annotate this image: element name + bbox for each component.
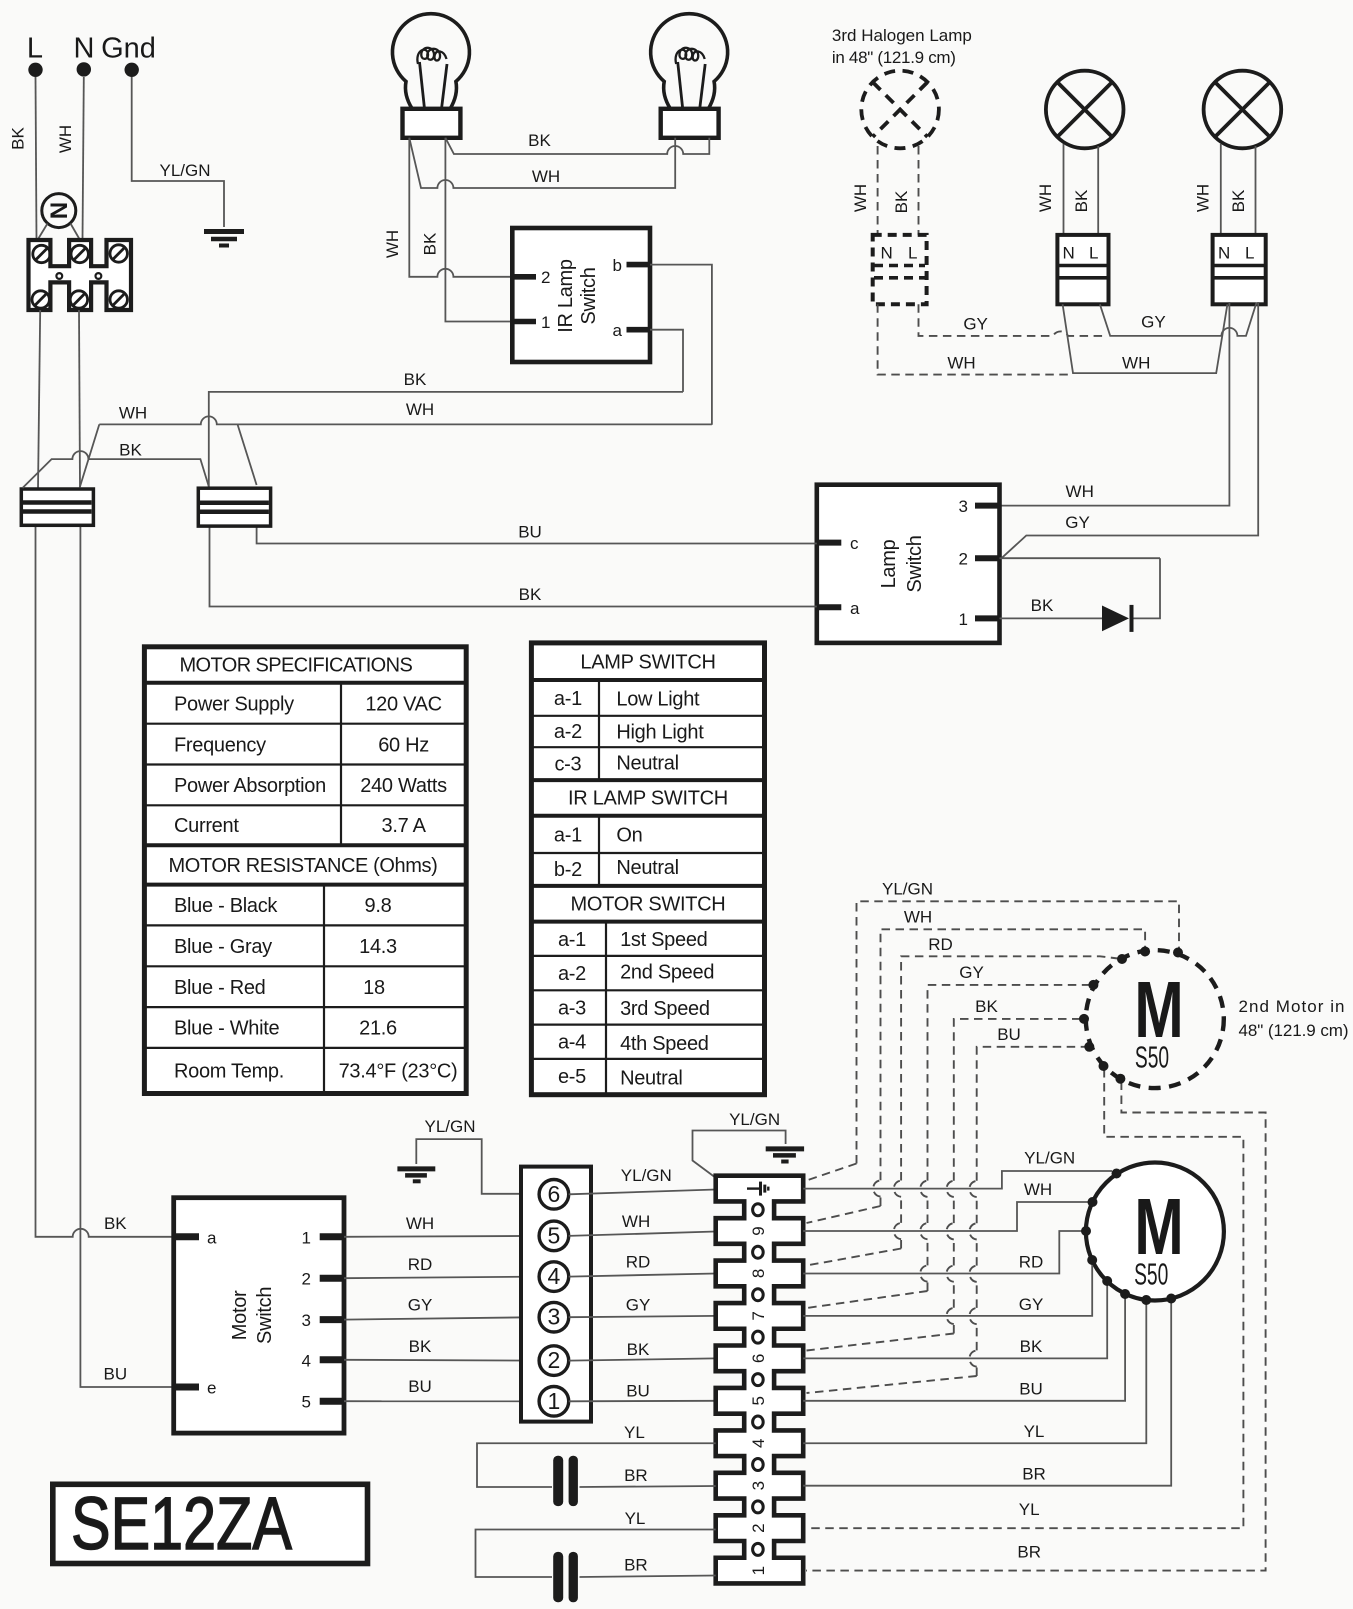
svg-text:Switch: Switch [578, 267, 600, 324]
svg-text:5: 5 [548, 1222, 561, 1248]
svg-text:BK: BK [975, 997, 998, 1016]
wire BK connector pin2 to strip 6 [569, 1358, 716, 1360]
wire BK dashed from HL3 [918, 146, 920, 235]
svg-text:3.7 A: 3.7 A [382, 815, 427, 837]
wire BK lower-left run from splice S1 to splice S2 [23, 451, 209, 488]
wire WH from HL1 [1063, 144, 1065, 235]
svg-text:YL/GN: YL/GN [729, 1110, 780, 1129]
svg-text:Power Absorption: Power Absorption [174, 775, 326, 797]
svg-text:YL/GN: YL/GN [1024, 1149, 1075, 1168]
svg-text:c-3: c-3 [554, 754, 581, 776]
svg-text:120 VAC: 120 VAC [365, 694, 441, 716]
svg-text:GY: GY [963, 315, 988, 334]
svg-text:Room Temp.: Room Temp. [174, 1061, 284, 1083]
svg-text:BU: BU [626, 1382, 650, 1401]
wire RD strip 8 to motor M1 [803, 1231, 1083, 1274]
wire WH from HL2 [1220, 144, 1222, 235]
svg-text:YL/GN: YL/GN [882, 880, 933, 899]
svg-text:6: 6 [548, 1181, 561, 1207]
pin 3 of motor switch [302, 1311, 344, 1330]
svg-text:YL: YL [624, 1423, 645, 1442]
pin a of lamp switch [817, 599, 860, 618]
svg-text:YL/GN: YL/GN [159, 161, 210, 180]
svg-text:Frequency: Frequency [174, 734, 266, 756]
wire GY strip 7 to motor M1 [803, 1262, 1092, 1316]
svg-text:Blue - Gray: Blue - Gray [174, 936, 272, 958]
svg-text:BK: BK [1031, 596, 1054, 615]
lamp bulb LP2 [651, 14, 728, 138]
svg-text:5: 5 [749, 1396, 768, 1405]
wire from pin b down to WH line [650, 265, 712, 425]
node N (neutral terminal) [74, 33, 95, 77]
pin a of motor switch [174, 1228, 217, 1247]
wire BK from L to terminal block [36, 77, 37, 240]
hook BU into strip row 5 [807, 1376, 977, 1393]
svg-text:2nd Motor in: 2nd Motor in [1239, 997, 1345, 1016]
svg-text:14.3: 14.3 [359, 936, 397, 958]
wire WH from NL2 down to lamp switch pin 3 [1000, 302, 1230, 506]
svg-text:3: 3 [749, 1481, 768, 1490]
svg-text:4: 4 [749, 1439, 768, 1448]
hop WH over YL/GN wire [873, 1180, 880, 1196]
svg-text:1: 1 [749, 1566, 768, 1575]
svg-text:a: a [207, 1228, 217, 1247]
node dot RD on M2 [1117, 954, 1127, 964]
wire RD connector pin4 to strip 8 [569, 1274, 716, 1277]
wire BK pin4 to connector pin 2 [344, 1359, 539, 1362]
svg-text:BU: BU [103, 1365, 127, 1384]
svg-text:BR: BR [1017, 1543, 1041, 1562]
diode D1 [1102, 605, 1132, 632]
svg-text:Power Supply: Power Supply [174, 694, 294, 716]
svg-text:WH: WH [1024, 1180, 1052, 1199]
svg-text:Blue - Red: Blue - Red [174, 977, 266, 999]
svg-text:4th Speed: 4th Speed [620, 1033, 709, 1055]
ground symbol (top) [204, 232, 244, 246]
hook YL/GN into strip gnd row [807, 1164, 857, 1181]
Motor Switch box [174, 1198, 344, 1433]
svg-text:Neutral: Neutral [620, 1068, 682, 1090]
node dot WH on M2 [1140, 947, 1150, 957]
wire GY connector pin3 to strip 7 [569, 1316, 716, 1317]
svg-text:GY: GY [1141, 313, 1166, 332]
pin 1 of IR lamp switch [512, 313, 550, 332]
svg-text:2: 2 [959, 550, 968, 569]
halogen lamp HL3 (remote, dashed) [861, 71, 939, 149]
node dot BR on M2 [1115, 1074, 1125, 1084]
svg-text:2: 2 [541, 268, 550, 287]
wire BU connector pin1 to strip 5 [569, 1400, 716, 1403]
svg-text:4: 4 [302, 1351, 311, 1370]
wire BK dashed to motor M2 [954, 1019, 1081, 1334]
pin e of motor switch [174, 1379, 217, 1398]
pin 2 of motor switch [302, 1270, 344, 1289]
svg-text:a: a [850, 599, 860, 618]
svg-text:Neutral: Neutral [616, 857, 678, 879]
wire BK from HL2 [1255, 146, 1257, 235]
wire WH dashed from NL3 to NL1 [878, 304, 1070, 374]
svg-text:MOTOR SPECIFICATIONS: MOTOR SPECIFICATIONS [180, 655, 413, 677]
svg-text:BR: BR [624, 1556, 648, 1575]
svg-text:On: On [616, 825, 642, 847]
svg-text:9.8: 9.8 [365, 895, 392, 917]
wire WH from N to terminal block [83, 77, 84, 240]
splice connector S2 [198, 488, 270, 526]
ground symbol (motor area) [397, 1169, 435, 1181]
wire BU pin5 to connector pin 1 [344, 1400, 539, 1402]
svg-text:BK: BK [104, 1214, 127, 1233]
svg-text:GY: GY [1065, 513, 1090, 532]
svg-text:73.4°F (23°C): 73.4°F (23°C) [339, 1061, 458, 1083]
wire BR capacitor C2 to strip row 1 [580, 1576, 716, 1578]
wire GY pin3 to connector pin 3 [344, 1317, 539, 1319]
svg-text:18: 18 [363, 977, 385, 999]
wire BK from HL1 [1097, 146, 1099, 235]
model label box SE12ZA [53, 1482, 368, 1565]
svg-text:1: 1 [541, 313, 550, 332]
halogen lamp HL1 [1046, 71, 1124, 149]
svg-text:WH: WH [406, 400, 434, 419]
pin b of IR lamp switch [613, 256, 650, 275]
svg-text:8: 8 [749, 1269, 768, 1278]
svg-text:Gnd: Gnd [101, 33, 156, 65]
wire from pin a down to BK line [650, 330, 683, 392]
svg-text:e: e [207, 1379, 216, 1398]
svg-text:1st Speed: 1st Speed [620, 929, 707, 951]
wire YL/GN dashed to motor M2 [857, 901, 1180, 1163]
wire BK from IR switch to splice S2 [209, 392, 683, 487]
svg-text:b-2: b-2 [554, 859, 582, 881]
wire WH main run to splice S2 and splice S1 [80, 416, 712, 487]
svg-text:N: N [1218, 244, 1230, 263]
svg-text:3rd Speed: 3rd Speed [620, 998, 710, 1020]
wire YL/GN connector pin6 to strip [569, 1190, 716, 1195]
wire YL/GN strip to ground (top of strip) [693, 1131, 786, 1177]
svg-text:WH: WH [406, 1214, 434, 1233]
svg-text:YL: YL [1019, 1500, 1040, 1519]
wire from terminal block to splice S1 left [38, 310, 40, 489]
node dot BK on M2 [1079, 1014, 1089, 1024]
svg-text:b: b [613, 256, 622, 275]
svg-text:N: N [74, 33, 95, 65]
terminal block NL3 (dashed) [873, 235, 927, 304]
svg-text:BK: BK [627, 1340, 650, 1359]
svg-text:Current: Current [174, 815, 239, 837]
capacitor C2 [553, 1552, 578, 1602]
motor M1 (hood motor S50) [1086, 1163, 1224, 1301]
terminal block NL1 [1057, 235, 1108, 304]
node dot YL/GN on M1 [1112, 1169, 1122, 1179]
svg-text:WH: WH [119, 404, 147, 423]
node dot RD on M1 [1081, 1226, 1091, 1236]
svg-text:BK: BK [892, 190, 911, 213]
pin c of lamp switch [817, 534, 859, 553]
node dot YL/GN on M2 [1173, 948, 1183, 958]
wire BU long left vertical to motor switch pin e [80, 525, 173, 1387]
svg-text:N: N [1063, 244, 1075, 263]
svg-text:60 Hz: 60 Hz [378, 734, 429, 756]
svg-text:WH: WH [622, 1212, 650, 1231]
svg-text:BK: BK [404, 370, 427, 389]
svg-text:BU: BU [518, 523, 542, 542]
pin a of IR lamp switch [613, 321, 650, 340]
svg-text:Low Light: Low Light [616, 689, 700, 711]
table MOTOR SPECIFICATIONS [144, 647, 466, 1094]
svg-text:1: 1 [302, 1228, 311, 1247]
svg-text:MOTOR RESISTANCE (Ohms): MOTOR RESISTANCE (Ohms) [169, 855, 438, 877]
svg-text:BR: BR [624, 1466, 648, 1485]
svg-text:BK: BK [1229, 189, 1248, 212]
wire BR capacitor C1 to strip row 3 [580, 1486, 716, 1487]
svg-text:L: L [27, 33, 43, 65]
connector CN1 [521, 1167, 591, 1422]
connector circle N on terminal block [38, 194, 81, 240]
wire WH solid NL1 to NL2 [1063, 304, 1228, 373]
terminal block TB1 [29, 240, 132, 310]
svg-text:Lamp: Lamp [878, 539, 900, 588]
svg-text:L: L [1089, 244, 1098, 263]
svg-text:a-2: a-2 [558, 963, 586, 985]
svg-text:RD: RD [408, 1255, 433, 1274]
svg-text:N: N [44, 202, 71, 219]
wire YL strip 4 to motor M1 [803, 1302, 1146, 1443]
svg-text:e-5: e-5 [558, 1066, 586, 1088]
pin 1 of lamp switch [959, 610, 1000, 629]
svg-text:Switch: Switch [254, 1287, 276, 1344]
hops RD over YL/GN and WH wires [894, 1181, 901, 1240]
node dot WH on M1 [1088, 1197, 1098, 1207]
node dot BK on M1 [1102, 1276, 1112, 1286]
lamp bulb LP1 [392, 14, 469, 138]
node dot BU on M1 [1120, 1289, 1130, 1299]
svg-text:a: a [613, 321, 623, 340]
wire WH connector pin5 to strip 9 [569, 1232, 716, 1236]
node dot BU on M2 [1084, 1042, 1094, 1052]
halogen lamp HL2 [1204, 71, 1282, 149]
hook RD into strip row 8 [807, 1249, 902, 1266]
svg-text:2: 2 [302, 1270, 311, 1289]
wire WH pin1 to connector pin 5 [344, 1235, 539, 1238]
svg-text:Switch: Switch [904, 535, 926, 592]
svg-text:BR: BR [1022, 1465, 1046, 1484]
svg-text:YL: YL [1024, 1422, 1045, 1441]
wire WH dashed to motor M2 [881, 929, 1146, 1206]
svg-text:SE12ZA: SE12ZA [71, 1482, 293, 1565]
pin 4 of motor switch [302, 1351, 344, 1370]
svg-text:YL: YL [625, 1509, 646, 1528]
node dot BR on M1 [1166, 1294, 1176, 1304]
svg-text:2: 2 [749, 1523, 768, 1532]
wire BK strip 6 to motor M1 [803, 1283, 1107, 1358]
svg-text:BK: BK [421, 232, 440, 255]
svg-text:240 Watts: 240 Watts [360, 775, 447, 797]
svg-text:a-4: a-4 [558, 1032, 586, 1054]
svg-text:a-1: a-1 [554, 688, 582, 710]
wire GY dashed to motor M2 [928, 985, 1091, 1291]
wire YL/GN to ground and connector pin 6 [416, 1139, 539, 1194]
svg-text:a-1: a-1 [554, 825, 582, 847]
svg-text:4: 4 [548, 1263, 561, 1289]
svg-text:BK: BK [528, 131, 551, 150]
svg-text:N: N [881, 244, 893, 263]
wire YL strip row 2 to capacitor C2 [476, 1530, 716, 1578]
svg-text:S50: S50 [1135, 1041, 1169, 1075]
svg-text:WH: WH [532, 167, 560, 186]
svg-text:7: 7 [749, 1311, 768, 1320]
node dot GY on M2 [1088, 980, 1098, 990]
svg-text:BU: BU [1019, 1380, 1043, 1399]
svg-text:21.6: 21.6 [359, 1018, 397, 1040]
wire from terminal block to splice S1 right [79, 310, 80, 489]
terminal strip TS1 [716, 1176, 804, 1584]
svg-text:RD: RD [928, 935, 953, 954]
capacitor C1 [553, 1456, 578, 1506]
svg-text:BK: BK [9, 127, 28, 150]
wire WH from bulb LP1 to IR lamp switch pin 2 [409, 138, 512, 277]
wire BU strip 5 to motor M1 [803, 1296, 1125, 1401]
pin 5 of motor switch [302, 1393, 344, 1412]
svg-text:IR LAMP SWITCH: IR LAMP SWITCH [568, 788, 728, 810]
svg-text:3: 3 [302, 1311, 311, 1330]
svg-text:YL/GN: YL/GN [621, 1166, 672, 1185]
wire BK from splice S2 to lamp switch pin a [210, 526, 817, 607]
svg-text:BK: BK [119, 441, 142, 460]
wire BK from lamp switch pin 1 through diode [1000, 558, 1161, 618]
table LAMP SWITCH / IR LAMP SWITCH / MOTOR SWITCH [531, 643, 764, 1095]
ground symbol (strip top) [766, 1149, 804, 1162]
wire RD dashed to motor M2 [901, 956, 1118, 1248]
pin 2 of lamp switch [959, 550, 1000, 569]
wire WH strip 9 to motor M1 [803, 1202, 1090, 1231]
Lamp Switch box [817, 485, 1000, 643]
pin 2 of IR lamp switch [512, 268, 550, 287]
svg-text:High Light: High Light [616, 722, 704, 744]
wire WH between bulbs [409, 138, 675, 188]
svg-text:3: 3 [548, 1304, 561, 1330]
svg-text:BK: BK [409, 1337, 432, 1356]
wire YL dashed from motor M2 to strip row 2 [806, 1069, 1243, 1528]
wire GY solid NL1 to NL2 [1100, 303, 1257, 336]
svg-text:GY: GY [408, 1296, 433, 1315]
motor M2 (2nd motor, dashed) [1086, 950, 1224, 1088]
pin 1 of motor switch [302, 1228, 344, 1247]
svg-text:a-2: a-2 [554, 721, 582, 743]
svg-text:LAMP SWITCH: LAMP SWITCH [580, 652, 715, 674]
svg-text:Neutral: Neutral [616, 753, 678, 775]
node Gnd (ground terminal) [101, 33, 156, 78]
wire BU from splice S2 to lamp switch pin c [257, 526, 817, 544]
hops GY over crossing wires [920, 1181, 927, 1282]
svg-text:GY: GY [959, 963, 984, 982]
wire BK between bulbs [445, 138, 709, 154]
svg-text:S50: S50 [1134, 1258, 1168, 1292]
hops BK over crossing wires [947, 1181, 954, 1324]
svg-text:L: L [908, 244, 917, 263]
IR Lamp Switch box [512, 228, 650, 362]
svg-text:in 48" (121.9 cm): in 48" (121.9 cm) [832, 48, 956, 67]
svg-text:GY: GY [1019, 1295, 1044, 1314]
wire BK long left vertical to motor switch pin a [36, 525, 174, 1237]
svg-text:BK: BK [519, 585, 542, 604]
node dot YL on M1 [1141, 1295, 1151, 1305]
svg-text:1: 1 [959, 610, 968, 629]
svg-text:9: 9 [749, 1226, 768, 1235]
svg-text:a-1: a-1 [558, 929, 586, 951]
hook BK into strip row 6 [807, 1334, 954, 1351]
svg-text:6: 6 [749, 1354, 768, 1363]
wire YL/GN from Gnd to ground symbol [132, 77, 224, 227]
svg-text:WH: WH [851, 184, 870, 212]
wire YL/GN strip gnd row to motor M1 [803, 1171, 1112, 1189]
svg-text:WH: WH [1066, 482, 1094, 501]
svg-text:Blue - Black: Blue - Black [174, 895, 278, 917]
svg-text:YL/GN: YL/GN [424, 1117, 475, 1136]
svg-text:GY: GY [626, 1296, 651, 1315]
svg-text:2: 2 [548, 1347, 561, 1373]
hook GY into strip row 7 [807, 1291, 928, 1308]
node dot GY on M1 [1087, 1255, 1097, 1265]
svg-text:3: 3 [959, 497, 968, 516]
wire WH dashed from HL3 [877, 146, 879, 235]
wire YL strip row 4 to capacitor C1 [477, 1443, 716, 1487]
svg-text:WH: WH [1036, 184, 1055, 212]
svg-text:BK: BK [1072, 189, 1091, 212]
svg-text:WH: WH [383, 230, 402, 258]
svg-text:3rd Halogen Lamp: 3rd Halogen Lamp [832, 26, 972, 45]
svg-text:WH: WH [947, 354, 975, 373]
svg-text:5: 5 [302, 1393, 311, 1412]
wire BR strip 3 to motor M1 [803, 1301, 1171, 1486]
svg-text:BU: BU [408, 1377, 432, 1396]
svg-text:1: 1 [548, 1388, 561, 1414]
svg-text:a-3: a-3 [558, 998, 586, 1020]
wire RD pin2 to connector pin 4 [344, 1277, 539, 1279]
svg-text:BU: BU [997, 1025, 1021, 1044]
node dot YL on M2 [1099, 1061, 1109, 1071]
terminal block NL2 [1213, 235, 1266, 304]
svg-text:48" (121.9 cm): 48" (121.9 cm) [1239, 1021, 1349, 1040]
wire BU dashed to motor M2 [977, 1047, 1086, 1376]
wire BK from bulb LP1 to IR lamp switch pin 1 [445, 138, 512, 322]
svg-text:IR Lamp: IR Lamp [555, 259, 577, 333]
wire GY from NL2 down to lamp switch pin 2 [1002, 302, 1259, 558]
svg-text:MOTOR SWITCH: MOTOR SWITCH [571, 894, 726, 916]
svg-text:WH: WH [1194, 184, 1213, 212]
svg-text:L: L [1245, 244, 1254, 263]
svg-text:RD: RD [1019, 1253, 1044, 1272]
hops BU over crossing wires [969, 1181, 976, 1367]
svg-text:2nd Speed: 2nd Speed [620, 962, 714, 984]
splice connector S1 [21, 489, 93, 525]
pin 3 of lamp switch [959, 497, 1000, 516]
svg-text:WH: WH [1122, 354, 1150, 373]
svg-text:BK: BK [1020, 1337, 1043, 1356]
svg-text:WH: WH [56, 125, 75, 153]
wire BR dashed from motor M2 to strip row 1 [806, 1082, 1266, 1571]
hook WH into strip row 9 [807, 1206, 881, 1223]
svg-text:c: c [850, 534, 859, 553]
node L (line terminal) [27, 33, 43, 78]
svg-text:Motor: Motor [229, 1290, 251, 1340]
svg-text:Blue - White: Blue - White [174, 1018, 280, 1040]
ground mark in strip top row [747, 1182, 768, 1196]
wire GY dashed from NL3 to NL1 [919, 304, 1106, 336]
svg-text:RD: RD [626, 1253, 651, 1272]
svg-text:WH: WH [904, 908, 932, 927]
